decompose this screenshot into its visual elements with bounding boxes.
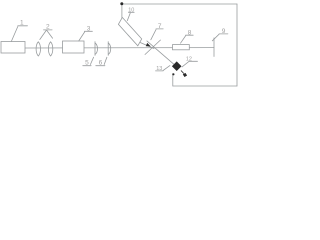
svg-text:7: 7: [158, 23, 162, 30]
svg-text:2: 2: [46, 24, 50, 31]
beam tube to crossing: [140, 42, 154, 48]
detector lead square: [181, 71, 184, 74]
label 3 leader: [79, 31, 93, 41]
svg-text:9: 9: [222, 28, 226, 35]
tube 10 (angled laser): [118, 17, 141, 45]
label 5 leader: [83, 57, 94, 65]
svg-text:6: 6: [99, 60, 103, 67]
label 6 leader: [96, 57, 107, 65]
top wire: [122, 3, 237, 5]
label 9 leader: [212, 34, 228, 41]
beam crossing to detector: [147, 41, 174, 64]
screen 9: [213, 38, 215, 57]
svg-text:5: 5: [85, 60, 89, 67]
box 8: [173, 45, 190, 50]
beamsplitter plate 7: [145, 40, 161, 55]
svg-text:12: 12: [186, 56, 192, 62]
svg-text:1: 1: [20, 19, 24, 26]
right wire: [236, 4, 238, 86]
wire up to detector: [172, 74, 174, 87]
junction dot detector: [172, 73, 174, 75]
box 2: [63, 41, 85, 53]
label 2 leaders: [40, 30, 53, 40]
box 1 (laser source): [1, 42, 25, 54]
label 10 leader: [127, 12, 134, 20]
label 7 leader: [151, 29, 163, 40]
plate 6: [108, 42, 111, 56]
detector diamond: [172, 61, 182, 71]
svg-text:13: 13: [156, 66, 162, 72]
bottom wire: [173, 85, 237, 87]
svg-text:3: 3: [87, 25, 91, 32]
svg-text:10: 10: [128, 8, 134, 14]
lens 2b: [48, 42, 52, 56]
junction dot top: [120, 2, 123, 5]
node label 1 leader: [11, 26, 27, 42]
label 13 leader: [156, 66, 170, 71]
svg-text:8: 8: [188, 29, 192, 36]
lens 2a: [36, 42, 40, 56]
plate 5: [95, 42, 98, 56]
beam arrow: [146, 43, 151, 47]
label 12 leader: [182, 61, 198, 67]
label 8 leader: [181, 35, 194, 43]
wire: [25, 47, 214, 49]
wire from dot to tube: [121, 4, 123, 18]
